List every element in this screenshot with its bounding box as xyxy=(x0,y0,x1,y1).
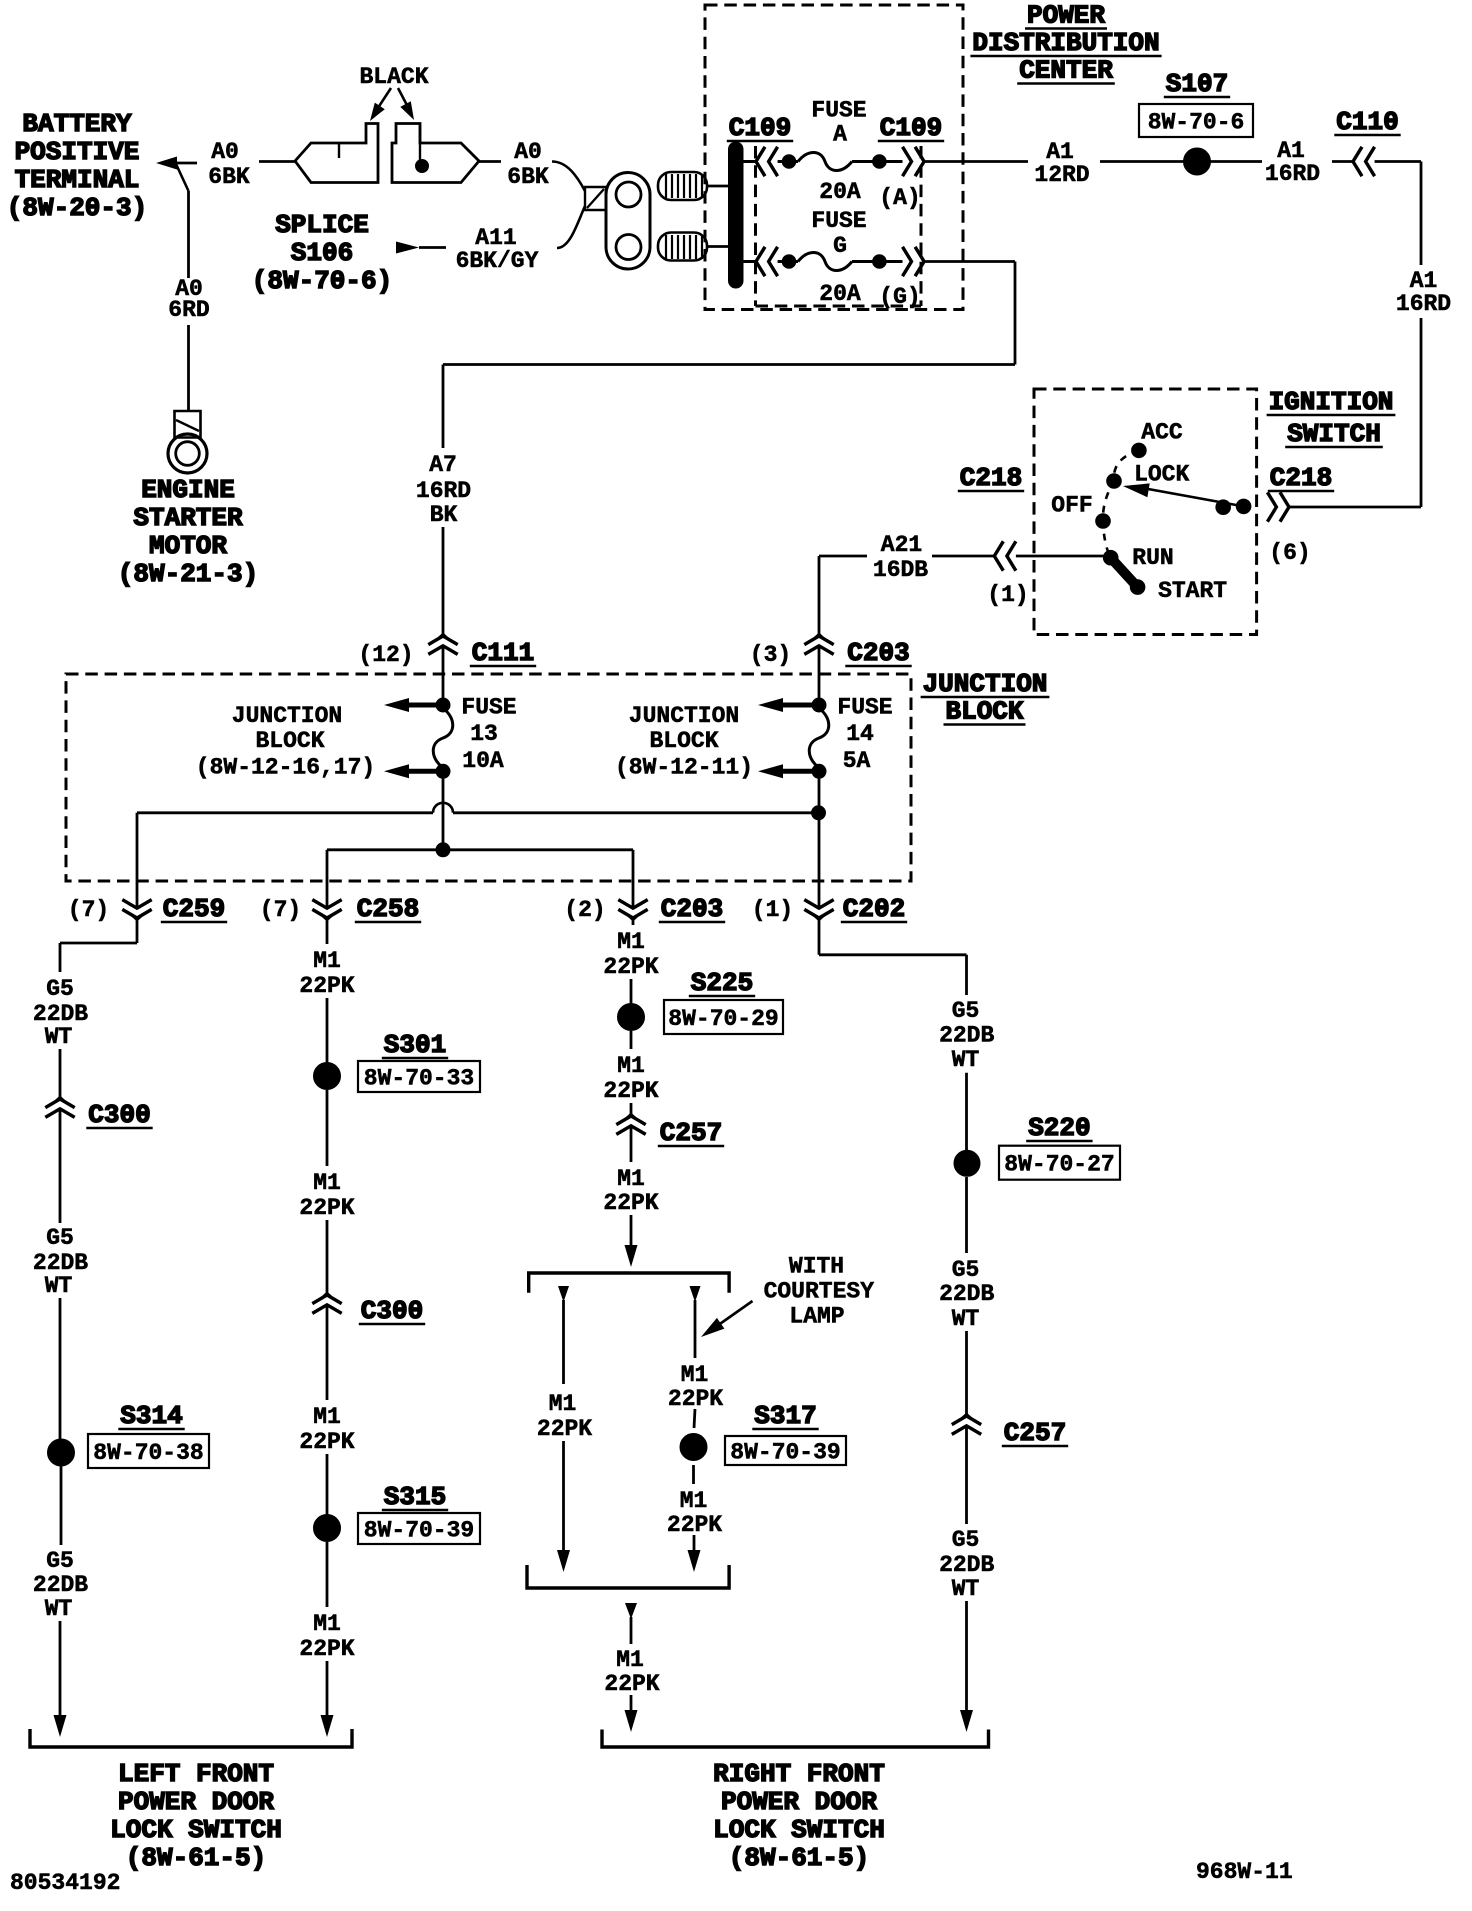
splice S301 xyxy=(314,1063,341,1090)
node fuse G left xyxy=(782,255,796,269)
node fuse 13 top xyxy=(436,698,450,712)
svg-text:POSITIVE: POSITIVE xyxy=(15,137,140,167)
connector C218 (6) xyxy=(1267,492,1289,521)
wire S225 down xyxy=(630,1031,633,1049)
svg-text:JUNCTION: JUNCTION xyxy=(923,669,1048,699)
wire C111 into junction block xyxy=(442,646,445,705)
wire S315 down xyxy=(326,1542,329,1607)
courtesy left branch wire upper xyxy=(562,1300,565,1384)
wire bolt A to PDC bar xyxy=(707,185,729,188)
wire C259 jog xyxy=(136,920,139,943)
svg-text:G5: G5 xyxy=(952,1257,980,1283)
wire to S220 xyxy=(965,1073,968,1150)
svg-text:FUSE: FUSE xyxy=(811,98,866,124)
svg-text:22PK: 22PK xyxy=(603,954,658,980)
svg-text:JUNCTION: JUNCTION xyxy=(629,703,739,729)
svg-text:8W-70-29: 8W-70-29 xyxy=(668,1006,778,1032)
svg-text:IGNITION: IGNITION xyxy=(1269,387,1394,417)
svg-text:S314: S314 xyxy=(120,1401,182,1431)
svg-text:8W-70-33: 8W-70-33 xyxy=(364,1066,474,1092)
ignition LOCK position dot xyxy=(1107,474,1122,489)
splice S220 xyxy=(954,1150,980,1176)
wire fuse14 down xyxy=(818,771,821,908)
wire to splice S107 xyxy=(1100,160,1184,163)
wire to S314 xyxy=(59,1298,62,1439)
wire A7 to C111 xyxy=(442,527,445,634)
svg-text:(8W-20-3): (8W-20-3) xyxy=(7,193,147,223)
svg-text:22DB: 22DB xyxy=(939,1023,994,1049)
svg-text:M1: M1 xyxy=(313,948,341,974)
wire to left switch xyxy=(59,1621,62,1716)
bolt terminal G xyxy=(658,233,707,261)
svg-text:C109: C109 xyxy=(729,113,791,143)
wire line1 with hop over fuse13 wire xyxy=(137,811,433,814)
svg-text:20A: 20A xyxy=(819,179,861,205)
with courtesy lamp callout arrow xyxy=(707,1301,753,1333)
splice S317 xyxy=(680,1434,707,1461)
svg-text:(A): (A) xyxy=(879,185,920,211)
svg-text:WITH: WITH xyxy=(789,1254,844,1280)
svg-text:TERMINAL: TERMINAL xyxy=(15,165,140,195)
node line1 right xyxy=(812,806,826,820)
ignition switch dashed box xyxy=(1034,389,1257,635)
wire to C300 left xyxy=(59,1049,62,1097)
svg-text:LOCK SWITCH: LOCK SWITCH xyxy=(713,1815,885,1845)
node fuse 14 top xyxy=(812,698,826,712)
courtesy left branch wire lower xyxy=(562,1441,565,1552)
courtesy bottom bracket xyxy=(527,1565,729,1588)
svg-text:13: 13 xyxy=(470,721,498,747)
wire C203 into junction block xyxy=(818,646,821,705)
wire into right switch center xyxy=(630,1695,633,1711)
svg-text:POWER DOOR: POWER DOOR xyxy=(721,1787,877,1817)
svg-text:M1: M1 xyxy=(313,1611,341,1637)
svg-text:C257: C257 xyxy=(1004,1418,1066,1448)
power distribution center dashed box xyxy=(705,5,963,310)
svg-text:M1: M1 xyxy=(681,1362,709,1388)
svg-text:G5: G5 xyxy=(46,1548,74,1574)
svg-text:LOCK SWITCH: LOCK SWITCH xyxy=(110,1815,282,1845)
wire to fuse A xyxy=(778,160,789,163)
splice S106 clamp symbol right half xyxy=(392,124,479,183)
wire from BLACK tab to splice dot xyxy=(419,124,421,161)
tap arrow fuse 14 top xyxy=(778,703,819,708)
wire to fuse G xyxy=(778,260,789,263)
wire RUN to C218(1) xyxy=(1016,555,1104,558)
svg-text:BLOCK: BLOCK xyxy=(255,728,324,754)
svg-text:22PK: 22PK xyxy=(603,1190,658,1216)
svg-text:C300: C300 xyxy=(88,1100,150,1130)
arrowhead below courtesy bracket xyxy=(625,1603,637,1619)
svg-text:22PK: 22PK xyxy=(604,1671,659,1697)
arrow BLACK left xyxy=(374,88,391,114)
arrow BLACK right xyxy=(398,88,410,111)
node fuse G right xyxy=(873,255,887,269)
connector C203 (2) xyxy=(628,915,639,920)
courtesy right branch arrowhead xyxy=(690,1286,701,1302)
svg-text:WT: WT xyxy=(952,1576,980,1602)
svg-text:C203: C203 xyxy=(847,638,909,668)
wire C257 right down xyxy=(965,1426,968,1524)
power distribution center inner dashed box xyxy=(756,146,922,306)
svg-text:16RD: 16RD xyxy=(1396,291,1451,317)
svg-text:8W-70-39: 8W-70-39 xyxy=(364,1518,474,1544)
svg-text:MOTOR: MOTOR xyxy=(149,531,227,561)
wire A0 6RD to engine starter xyxy=(176,164,189,191)
courtesy right branch bottom arrowhead xyxy=(688,1550,701,1572)
svg-text:S301: S301 xyxy=(384,1030,446,1060)
svg-text:22PK: 22PK xyxy=(299,1636,354,1662)
svg-text:SPLICE: SPLICE xyxy=(275,210,369,240)
svg-text:C218: C218 xyxy=(960,463,1022,493)
svg-text:A0: A0 xyxy=(211,139,239,165)
svg-text:BLOCK: BLOCK xyxy=(649,728,718,754)
svg-text:S225: S225 xyxy=(691,968,753,998)
svg-text:80534192: 80534192 xyxy=(10,1870,120,1896)
svg-text:C109: C109 xyxy=(880,113,942,143)
wire line1 left drop xyxy=(136,813,139,908)
wire into right switch xyxy=(965,1601,968,1711)
svg-text:START: START xyxy=(1158,578,1227,604)
svg-text:A7: A7 xyxy=(429,452,457,478)
svg-text:(8W-12-11): (8W-12-11) xyxy=(615,755,753,781)
wire A1 16RD down right side xyxy=(1375,160,1421,163)
wire to S225 xyxy=(630,979,633,1004)
svg-text:G5: G5 xyxy=(952,998,980,1024)
ignition position dashed arc xyxy=(1103,450,1139,557)
svg-text:(8W-61-5): (8W-61-5) xyxy=(729,1843,869,1873)
node line2 center xyxy=(436,843,450,857)
wire bar to C109 fuse A xyxy=(743,160,756,163)
node fuse 14 bottom xyxy=(812,764,826,778)
connector C109 fuse A right xyxy=(903,147,925,176)
svg-text:S315: S315 xyxy=(384,1482,446,1512)
svg-text:G5: G5 xyxy=(46,976,74,1002)
wire C258 down xyxy=(326,920,329,944)
svg-text:BK: BK xyxy=(430,502,458,528)
wire C257 down xyxy=(630,1126,633,1162)
svg-text:8W-70-6: 8W-70-6 xyxy=(1148,110,1245,136)
svg-text:22DB: 22DB xyxy=(33,1572,88,1598)
wire A0 6BK to eyelet xyxy=(479,160,501,163)
svg-text:POWER DOOR: POWER DOOR xyxy=(118,1787,274,1817)
wire arrow into courtesy bracket xyxy=(630,1215,633,1246)
wire into splice clamp xyxy=(259,160,295,163)
wire S301 down xyxy=(326,1090,329,1166)
wire to S315 xyxy=(326,1454,329,1515)
svg-text:6BK: 6BK xyxy=(507,164,549,190)
wire S107 to C110 xyxy=(1211,160,1263,163)
connector C300 mid xyxy=(322,1293,333,1298)
courtesy left branch bottom arrowhead xyxy=(557,1550,570,1572)
svg-text:M1: M1 xyxy=(617,1053,645,1079)
svg-text:LAMP: LAMP xyxy=(789,1304,844,1330)
wire to C110 xyxy=(1332,160,1353,163)
svg-text:S106: S106 xyxy=(291,238,353,268)
svg-text:RIGHT FRONT: RIGHT FRONT xyxy=(713,1759,885,1789)
wire C203 down xyxy=(632,920,635,925)
svg-text:FUSE: FUSE xyxy=(461,695,516,721)
bolt terminal A xyxy=(658,172,707,200)
svg-text:22PK: 22PK xyxy=(299,973,354,999)
svg-text:6BK/GY: 6BK/GY xyxy=(456,248,539,274)
svg-text:(G): (G) xyxy=(879,284,920,310)
svg-text:SWITCH: SWITCH xyxy=(1287,419,1381,449)
svg-text:22PK: 22PK xyxy=(668,1386,723,1412)
svg-text:(1): (1) xyxy=(752,897,793,923)
svg-text:(1): (1) xyxy=(987,582,1028,608)
wire to C300 mid xyxy=(326,1220,329,1293)
svg-text:(6): (6) xyxy=(1269,540,1310,566)
connector C203 (3) xyxy=(814,634,825,639)
splice dot inside clamp xyxy=(416,160,429,173)
svg-text:C218: C218 xyxy=(1270,463,1332,493)
wire to S317 xyxy=(694,1409,695,1428)
connector C109 fuse G right xyxy=(903,247,925,276)
svg-text:968W-11: 968W-11 xyxy=(1196,1859,1293,1885)
svg-text:STARTER: STARTER xyxy=(133,503,243,533)
svg-text:C258: C258 xyxy=(357,894,419,924)
svg-text:6RD: 6RD xyxy=(168,297,209,323)
svg-text:JUNCTION: JUNCTION xyxy=(232,703,342,729)
ignition selector dots xyxy=(1216,500,1231,515)
wire A11 6BK/GY to eyelet xyxy=(557,206,585,248)
connector C300 left xyxy=(55,1097,66,1102)
fuse 14 xyxy=(809,708,829,768)
wire to ring terminal xyxy=(187,325,190,411)
svg-text:16RD: 16RD xyxy=(1265,161,1320,187)
svg-text:ACC: ACC xyxy=(1141,420,1183,446)
svg-text:RUN: RUN xyxy=(1132,545,1173,571)
svg-text:WT: WT xyxy=(45,1024,73,1050)
splice S225 xyxy=(618,1004,645,1031)
tap arrow fuse 13 top xyxy=(404,703,443,708)
svg-text:ENGINE: ENGINE xyxy=(141,475,235,505)
svg-text:C202: C202 xyxy=(843,894,905,924)
svg-text:(8W-12-16,17): (8W-12-16,17) xyxy=(196,755,375,781)
arrowhead into left switch 2 xyxy=(321,1715,334,1737)
tap arrow fuse 14 bottom xyxy=(778,769,819,774)
svg-text:22DB: 22DB xyxy=(939,1552,994,1578)
wire to C257 mid xyxy=(630,1103,633,1114)
svg-text:M1: M1 xyxy=(313,1170,341,1196)
svg-text:S317: S317 xyxy=(754,1401,816,1431)
ignition OFF position dot xyxy=(1096,514,1111,529)
svg-text:8W-70-39: 8W-70-39 xyxy=(730,1440,840,1466)
svg-text:(8W-21-3): (8W-21-3) xyxy=(118,559,258,589)
courtesy right branch wire lower xyxy=(693,1535,696,1552)
wire C202 jog xyxy=(818,920,821,955)
wire C300 down left xyxy=(59,1109,62,1223)
courtesy left branch arrowhead xyxy=(558,1286,569,1302)
svg-text:OFF: OFF xyxy=(1051,492,1092,518)
svg-text:M1: M1 xyxy=(313,1404,341,1430)
wire S314 down xyxy=(60,1466,63,1545)
node fuse A right xyxy=(873,155,887,169)
fuse G xyxy=(789,260,798,263)
wire to S301 xyxy=(326,998,329,1063)
svg-text:16RD: 16RD xyxy=(416,478,471,504)
svg-text:FUSE: FUSE xyxy=(811,208,866,234)
connector C259 xyxy=(132,915,143,920)
svg-text:5A: 5A xyxy=(843,748,871,774)
wire C300 mid down xyxy=(326,1305,329,1400)
wire A0 6BK from battery terminal xyxy=(176,162,197,165)
ignition ACC position dot xyxy=(1132,443,1147,458)
wire line2 left drop xyxy=(326,850,329,908)
svg-text:G5: G5 xyxy=(952,1527,980,1553)
arrow from splice label xyxy=(396,242,419,254)
svg-text:A21: A21 xyxy=(881,532,922,558)
svg-text:A: A xyxy=(833,122,847,148)
svg-text:C203: C203 xyxy=(661,894,723,924)
connector C258 xyxy=(322,915,333,920)
svg-text:COURTESY: COURTESY xyxy=(764,1279,875,1305)
svg-text:BATTERY: BATTERY xyxy=(22,109,132,139)
svg-text:G: G xyxy=(833,233,847,259)
svg-text:M1: M1 xyxy=(680,1488,708,1514)
twisted pair symbol xyxy=(585,187,606,210)
courtesy right branch wire upper xyxy=(694,1300,697,1358)
svg-text:(7): (7) xyxy=(260,897,301,923)
junction block dashed box xyxy=(66,674,911,881)
svg-text:(2): (2) xyxy=(564,897,605,923)
ring terminal at engine starter motor xyxy=(175,411,201,438)
wire A21 16DB xyxy=(932,555,994,558)
connector C257 mid xyxy=(626,1114,637,1119)
svg-text:S220: S220 xyxy=(1028,1113,1090,1143)
svg-text:LEFT FRONT: LEFT FRONT xyxy=(118,1759,274,1789)
svg-text:22PK: 22PK xyxy=(299,1429,354,1455)
svg-text:M1: M1 xyxy=(617,1166,645,1192)
arrow to battery positive terminal xyxy=(156,157,177,170)
ignition RUN position dot xyxy=(1103,550,1118,565)
wire bar to C109 fuse G xyxy=(743,260,756,263)
fuse 13 xyxy=(433,708,453,768)
svg-text:(8W-70-6): (8W-70-6) xyxy=(252,266,392,296)
svg-text:(8W-61-5): (8W-61-5) xyxy=(126,1843,266,1873)
svg-text:12RD: 12RD xyxy=(1034,162,1089,188)
fuse A xyxy=(789,160,798,163)
ignition selector arrow xyxy=(1140,488,1244,507)
splice S314 xyxy=(48,1439,75,1466)
splice S106 clamp symbol left half xyxy=(295,124,378,183)
svg-text:A0: A0 xyxy=(514,139,542,165)
node fuse A left xyxy=(782,155,796,169)
splice S107 xyxy=(1184,148,1211,175)
right switch bracket xyxy=(602,1730,989,1748)
svg-text:FUSE: FUSE xyxy=(837,695,892,721)
left switch bracket xyxy=(30,1729,352,1747)
svg-text:C257: C257 xyxy=(660,1118,722,1148)
svg-text:C110: C110 xyxy=(1336,107,1398,137)
svg-text:8W-70-27: 8W-70-27 xyxy=(1004,1152,1114,1178)
svg-text:C300: C300 xyxy=(361,1296,423,1326)
connector C257 right xyxy=(961,1414,972,1419)
svg-text:10A: 10A xyxy=(462,748,504,774)
connector C202 xyxy=(814,915,825,920)
wire below courtesy bracket xyxy=(630,1617,633,1644)
wire down to ignition switch xyxy=(1420,318,1423,507)
svg-text:C259: C259 xyxy=(163,894,225,924)
svg-text:22DB: 22DB xyxy=(939,1281,994,1307)
arrowhead into left switch xyxy=(54,1715,67,1737)
wire bolt G to PDC bar xyxy=(707,245,729,248)
svg-text:8W-70-38: 8W-70-38 xyxy=(93,1440,203,1466)
double eyelet terminal xyxy=(606,173,650,270)
ignition START position dot xyxy=(1130,580,1145,595)
wire line2 right drop xyxy=(632,850,635,908)
svg-text:22PK: 22PK xyxy=(537,1416,592,1442)
svg-text:M1: M1 xyxy=(616,1647,644,1673)
svg-text:WT: WT xyxy=(952,1306,980,1332)
svg-text:(3): (3) xyxy=(750,642,791,668)
node fuse 13 bottom xyxy=(436,764,450,778)
svg-text:(7): (7) xyxy=(68,897,109,923)
courtesy top bracket xyxy=(529,1273,729,1293)
svg-text:BLACK: BLACK xyxy=(359,64,428,90)
ignition wiper RUN-START xyxy=(1111,558,1138,587)
svg-text:G5: G5 xyxy=(46,1225,74,1251)
tap arrow fuse 13 bottom xyxy=(404,769,443,774)
svg-text:WT: WT xyxy=(952,1047,980,1073)
svg-text:M1: M1 xyxy=(617,929,645,955)
splice S315 xyxy=(314,1515,341,1542)
connector C218 (1) xyxy=(994,541,1016,570)
wire fuse13 down xyxy=(442,771,445,850)
svg-text:POWER: POWER xyxy=(1027,1,1105,31)
svg-text:22PK: 22PK xyxy=(667,1512,722,1538)
svg-text:WT: WT xyxy=(45,1596,73,1622)
svg-text:(12): (12) xyxy=(358,642,413,668)
wire fuse G to C109 right xyxy=(886,260,903,263)
svg-text:WT: WT xyxy=(45,1273,73,1299)
wire S220 down xyxy=(965,1177,968,1253)
svg-text:C111: C111 xyxy=(472,638,534,668)
connector C111 xyxy=(438,634,449,639)
svg-text:LOCK: LOCK xyxy=(1134,461,1189,487)
wire line2 xyxy=(327,848,633,851)
wire fuse A to C109 right xyxy=(886,160,903,163)
svg-text:CENTER: CENTER xyxy=(1019,56,1113,86)
wire to C257 right xyxy=(965,1331,968,1414)
connector C109 fuse A left xyxy=(756,147,778,176)
wire A1 12RD xyxy=(924,160,1028,163)
wire C218(6) to corner xyxy=(1289,506,1421,509)
svg-text:BLOCK: BLOCK xyxy=(945,697,1023,727)
svg-text:22PK: 22PK xyxy=(603,1078,658,1104)
wire to left switch 2 xyxy=(326,1661,329,1716)
svg-text:20A: 20A xyxy=(819,281,861,307)
svg-text:S107: S107 xyxy=(1166,69,1228,99)
connector C110 xyxy=(1353,147,1375,176)
wire S317 down xyxy=(692,1465,695,1484)
svg-text:DISTRIBUTION: DISTRIBUTION xyxy=(972,28,1159,58)
svg-text:M1: M1 xyxy=(549,1391,577,1417)
svg-text:14: 14 xyxy=(846,721,874,747)
arrowhead into right switch xyxy=(960,1710,973,1732)
svg-text:22PK: 22PK xyxy=(299,1195,354,1221)
wire fuse G output run xyxy=(924,260,1015,263)
connector C109 fuse G left xyxy=(756,247,778,276)
svg-text:6BK: 6BK xyxy=(208,164,250,190)
svg-text:16DB: 16DB xyxy=(873,557,928,583)
PDC bus bar xyxy=(729,142,744,288)
